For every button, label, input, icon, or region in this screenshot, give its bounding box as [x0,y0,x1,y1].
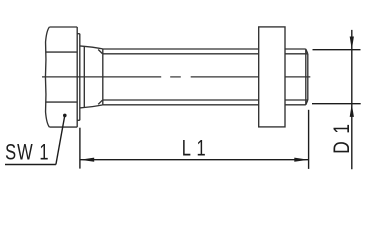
svg-text:SW 1: SW 1 [5,140,50,165]
svg-text:D 1: D 1 [330,123,355,154]
svg-text:L 1: L 1 [182,136,207,161]
